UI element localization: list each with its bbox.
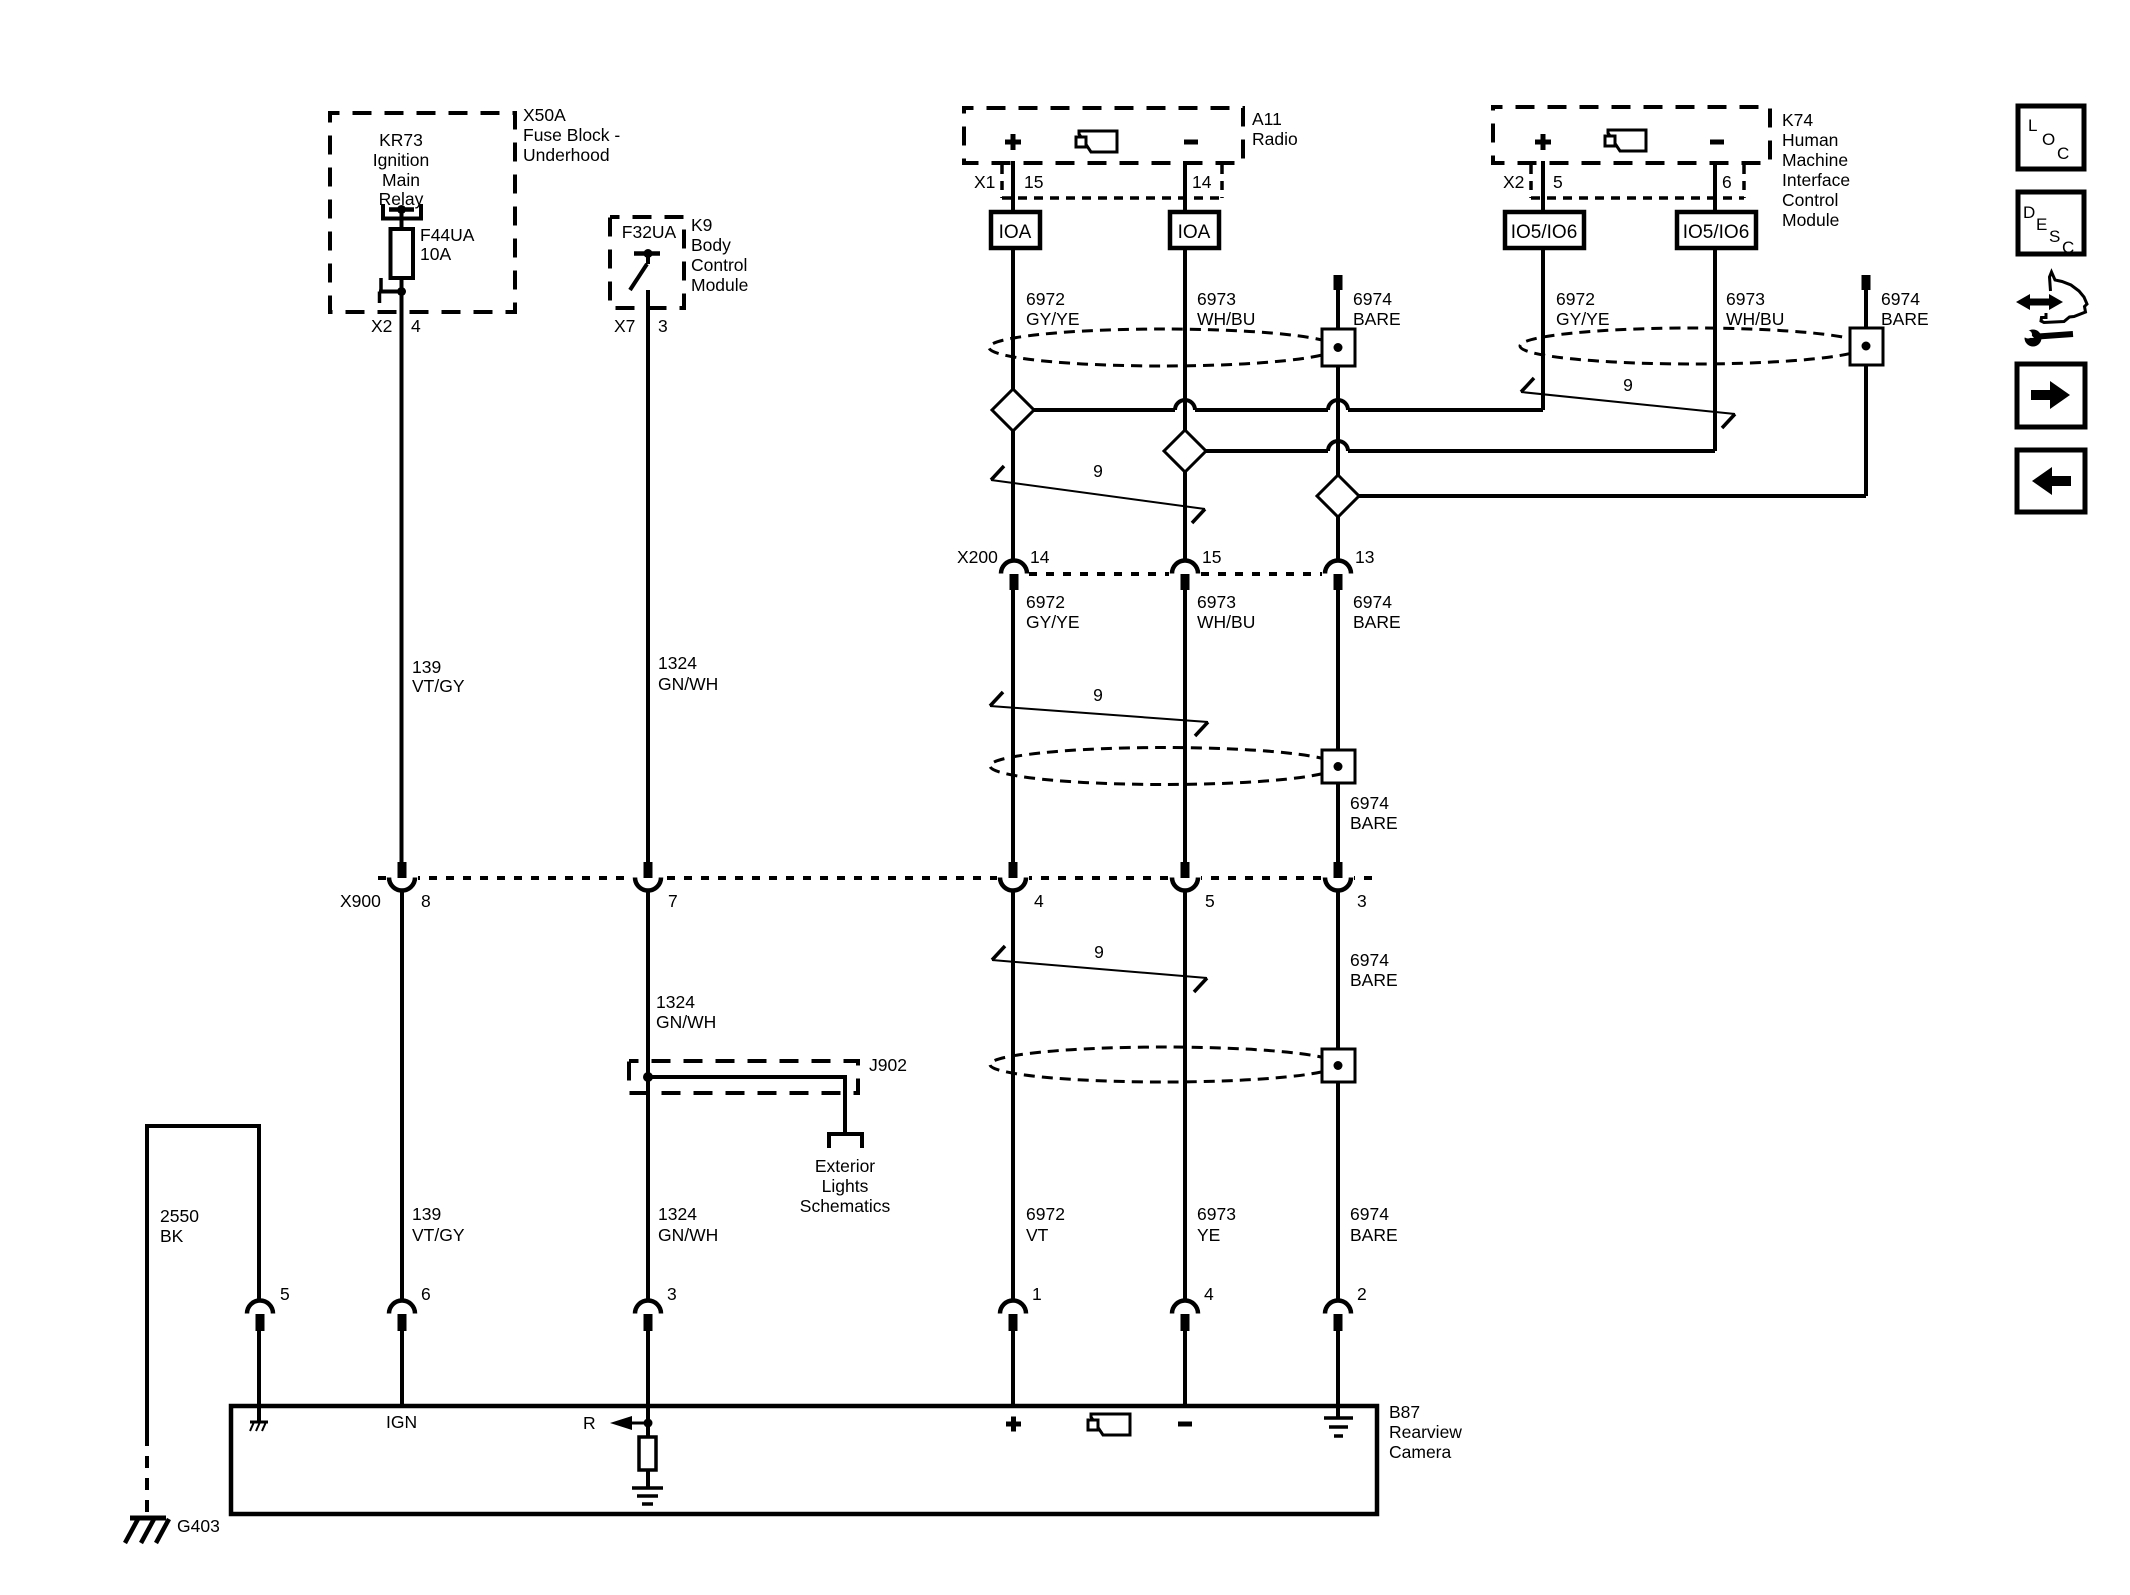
connector X900 pin 5 (pin + female cup): [1172, 862, 1198, 891]
wire 1324 GN/WH (X900 to B87): [646, 890, 650, 1301]
IOA box (left): [991, 212, 1040, 248]
label 6973 WH/BU (A11 drop): [1197, 289, 1255, 329]
svg-text:K74: K74: [1782, 110, 1813, 130]
wire 2550 BK dashed segment: [145, 1434, 149, 1517]
camera icon (B87): [1088, 1414, 1130, 1435]
svg-text:6973: 6973: [1197, 289, 1236, 309]
shield termination box (A11): [1322, 329, 1355, 366]
internal resistor (B87): [639, 1423, 656, 1488]
label K9 Body Control Module: [691, 215, 748, 295]
DESC button: [2018, 192, 2084, 257]
label X7 3 (BCM connector): [614, 316, 668, 336]
svg-text:X50A: X50A: [523, 105, 566, 125]
wire 6974 BARE (K74 drop): [1864, 290, 1868, 496]
label 6974 BARE (below X200): [1353, 592, 1401, 632]
connector X900 pin 3 (pin + female cup): [1325, 862, 1351, 891]
svg-text:4: 4: [1034, 891, 1044, 911]
wire 6973 WH/BU (X200 to X900): [1183, 590, 1187, 862]
wire 2550 BK loop: [147, 1126, 259, 1434]
svg-text:Body: Body: [691, 235, 731, 255]
plus terminal (B87): [1006, 1417, 1021, 1432]
svg-text:BARE: BARE: [1881, 309, 1929, 329]
svg-text:WH/BU: WH/BU: [1197, 309, 1255, 329]
shield termination box (K74): [1850, 328, 1883, 365]
wire A11 pin14 to IOA: [1183, 161, 1187, 212]
svg-text:Lights: Lights: [822, 1176, 869, 1196]
svg-text:F32UA: F32UA: [622, 222, 677, 242]
svg-text:Fuse Block -: Fuse Block -: [523, 125, 620, 145]
crossover link wire 6972 (splice to K74) with hops: [1013, 400, 1543, 410]
svg-text:IO5/IO6: IO5/IO6: [1511, 222, 1578, 243]
fuse block X50A dashed box: [330, 113, 515, 312]
wire pin3 to B87: [646, 1331, 650, 1423]
svg-text:8: 8: [421, 891, 431, 911]
ground G403: [125, 1518, 169, 1543]
label 6974 BARE (below X900): [1350, 950, 1398, 990]
svg-text:6973: 6973: [1197, 1204, 1236, 1224]
svg-text:A11: A11: [1252, 109, 1282, 129]
IO5/IO6 box (left): [1505, 212, 1584, 248]
svg-text:F44UA: F44UA: [420, 225, 475, 245]
twisted pair marker 9 (below X900): [992, 942, 1207, 992]
svg-text:Human: Human: [1782, 130, 1838, 150]
svg-text:GN/WH: GN/WH: [658, 1225, 718, 1245]
svg-text:1: 1: [1032, 1284, 1042, 1304]
wire pin2 to B87: [1336, 1331, 1340, 1418]
label F44UA 10A: [420, 225, 475, 264]
wire 6974 BARE (X200 to X900): [1336, 590, 1340, 862]
svg-text:O: O: [2042, 130, 2055, 149]
label 1324 GN/WH (upper): [658, 653, 718, 694]
label 6972 VT: [1026, 1204, 1065, 1245]
label KR73 Ignition Main Relay: [373, 130, 429, 209]
label X2 4 (fuse block connector): [371, 316, 421, 336]
inline connector pin 6 (arc + pin): [389, 1301, 415, 1331]
wire 6973 WH/BU (K74 drop): [1713, 248, 1717, 451]
connector X900 pin 8 (pin + female cup): [389, 862, 415, 891]
svg-text:Control: Control: [691, 255, 747, 275]
wire pin4 to B87: [1183, 1331, 1187, 1404]
svg-text:C: C: [2062, 238, 2074, 257]
twisted pair marker 9 (below X200): [990, 685, 1208, 736]
svg-text:IOA: IOA: [999, 222, 1032, 243]
wire 6974 BARE (A11 drop): [1336, 290, 1340, 561]
svg-text:VT/GY: VT/GY: [412, 1225, 465, 1245]
svg-text:6974: 6974: [1353, 592, 1392, 612]
twisted pair marker 9 (K74 pair): [1521, 375, 1735, 428]
wire 6972 (X900 to B87): [1011, 890, 1015, 1301]
svg-text:Rearview: Rearview: [1389, 1422, 1462, 1442]
twisted pair marker 9 (above X200): [991, 461, 1205, 523]
inline connector pin 4 (arc + pin): [1172, 1301, 1198, 1331]
shield ellipse (mid pair): [990, 748, 1338, 785]
svg-text:X2: X2: [1503, 172, 1524, 192]
svg-text:E: E: [2036, 215, 2047, 234]
next page button (right arrow): [2017, 364, 2085, 427]
splice diamond (6973): [1164, 430, 1206, 472]
svg-text:YE: YE: [1197, 1225, 1220, 1245]
splice diamond (6972): [992, 389, 1034, 431]
svg-text:IO5/IO6: IO5/IO6: [1683, 222, 1750, 243]
label 6974 BARE (K74 drop): [1881, 289, 1929, 329]
svg-text:Radio: Radio: [1252, 129, 1298, 149]
svg-text:K9: K9: [691, 215, 712, 235]
svg-text:BK: BK: [160, 1226, 184, 1246]
connector X200 pin 15 (female arc + pin): [1172, 561, 1198, 591]
shield ellipse (K74 pair): [1520, 328, 1866, 364]
svg-text:6972: 6972: [1026, 289, 1065, 309]
svg-text:13: 13: [1355, 547, 1374, 567]
svg-text:X200: X200: [957, 547, 998, 567]
svg-text:KR73: KR73: [379, 130, 423, 150]
svg-text:VT/GY: VT/GY: [412, 676, 465, 696]
minus terminal (B87): [1178, 1422, 1192, 1427]
IO5/IO6 box (right): [1677, 212, 1756, 248]
label 139 VT/GY (lower): [412, 1204, 465, 1245]
wire relay to fuse: [400, 210, 404, 230]
svg-text:C: C: [2057, 144, 2069, 163]
crossover link wire 6974 (splice to K74): [1338, 494, 1866, 498]
label R with reverse-signal arrow: [583, 1413, 653, 1433]
BCM K9 dashed box: [610, 217, 684, 308]
svg-text:Module: Module: [1782, 210, 1839, 230]
svg-text:3: 3: [658, 316, 668, 336]
svg-text:6973: 6973: [1197, 592, 1236, 612]
diagnostic icon (double arrow, component outline, wrench): [2016, 272, 2087, 347]
internal ground (B87 R circuit): [632, 1488, 663, 1504]
svg-text:10A: 10A: [420, 244, 451, 264]
svg-text:WH/BU: WH/BU: [1726, 309, 1784, 329]
connector X200 pin 13 (female arc + pin): [1325, 561, 1351, 591]
radio A11 dashed box: [964, 108, 1243, 163]
svg-text:D: D: [2023, 203, 2035, 222]
shield ellipse (A11 pair): [989, 329, 1337, 366]
svg-text:BARE: BARE: [1350, 1225, 1398, 1245]
svg-text:X2: X2: [371, 316, 392, 336]
svg-text:R: R: [583, 1413, 596, 1433]
wire pin1 to B87: [1011, 1331, 1015, 1404]
label 139 VT/GY (upper): [412, 657, 465, 696]
plus terminal (A11): [1005, 134, 1021, 150]
svg-text:4: 4: [411, 316, 421, 336]
svg-text:1324: 1324: [658, 653, 697, 673]
label 2550 BK: [160, 1206, 199, 1246]
svg-text:6974: 6974: [1350, 1204, 1389, 1224]
svg-text:IGN: IGN: [386, 1412, 417, 1432]
svg-text:X900: X900: [340, 891, 381, 911]
svg-text:139: 139: [412, 1204, 441, 1224]
svg-text:GN/WH: GN/WH: [656, 1012, 716, 1032]
svg-text:6: 6: [1722, 172, 1732, 192]
svg-text:WH/BU: WH/BU: [1197, 612, 1255, 632]
splice junction dot J902: [643, 1072, 653, 1082]
label 6973 YE: [1197, 1204, 1236, 1245]
mask under X900 connectors: [386, 870, 1354, 896]
svg-text:3: 3: [667, 1284, 677, 1304]
switch F32UA (BCM driver output): [630, 249, 660, 290]
svg-text:Underhood: Underhood: [523, 145, 610, 165]
svg-text:X1: X1: [974, 172, 995, 192]
svg-text:6: 6: [421, 1284, 431, 1304]
svg-text:Main: Main: [382, 170, 420, 190]
relay output clip terminal: [379, 278, 406, 303]
svg-text:VT: VT: [1026, 1225, 1049, 1245]
label 6972 GY/YE (below X200): [1026, 592, 1080, 632]
shield termination box (mid): [1322, 750, 1355, 783]
internal chassis ground (B87 pin5): [250, 1422, 268, 1431]
fuse F44UA: [391, 229, 414, 278]
connector X2 dashed outline (K74): [1531, 165, 1744, 198]
svg-text:GY/YE: GY/YE: [1026, 309, 1080, 329]
svg-text:IOA: IOA: [1178, 222, 1211, 243]
svg-text:BARE: BARE: [1353, 612, 1401, 632]
wire pin5 to B87: [257, 1331, 261, 1422]
label 6974 BARE (lower): [1350, 1204, 1398, 1245]
svg-text:Exterior: Exterior: [815, 1156, 875, 1176]
svg-text:1324: 1324: [658, 1204, 697, 1224]
inline connector pin 1 (arc + pin): [1000, 1301, 1026, 1331]
label Exterior Lights Schematics: [800, 1156, 891, 1216]
wire 139 VT/GY (X900 to B87): [400, 890, 404, 1301]
svg-text:3: 3: [1357, 891, 1367, 911]
label 1324 GN/WH (above J902): [656, 992, 716, 1032]
svg-text:GY/YE: GY/YE: [1556, 309, 1610, 329]
svg-text:9: 9: [1094, 942, 1104, 962]
label 6974 BARE (A11 drop): [1353, 289, 1401, 329]
connector X200 dashed line: [1029, 572, 1322, 576]
label 6972 GY/YE (A11 drop): [1026, 289, 1080, 329]
svg-text:Module: Module: [691, 275, 748, 295]
label 1324 GN/WH (lower): [658, 1204, 718, 1245]
wire 139 VT/GY upper segment: [400, 292, 404, 863]
svg-text:Ignition: Ignition: [373, 150, 429, 170]
minus terminal (K74): [1710, 140, 1724, 145]
wire K74 pin6 to IO5/IO6: [1713, 161, 1717, 212]
svg-text:Camera: Camera: [1389, 1442, 1452, 1462]
inline connector pin 2 (arc + pin): [1325, 1301, 1351, 1331]
inline connector pin 5 (arc + pin): [247, 1301, 273, 1331]
svg-text:2550: 2550: [160, 1206, 199, 1226]
svg-text:6972: 6972: [1026, 1204, 1065, 1224]
wire fuse to relay terminal: [400, 278, 404, 292]
wire 6972 GY/YE (K74 drop): [1541, 248, 1545, 410]
previous page button (left arrow): [2017, 450, 2085, 512]
svg-text:Interface: Interface: [1782, 170, 1850, 190]
HMI module K74 dashed box: [1493, 107, 1770, 163]
camera icon (K74): [1605, 130, 1646, 151]
camera icon (A11): [1076, 131, 1117, 152]
relay KR73 contact (bracket, blade, junction): [383, 204, 421, 219]
svg-text:9: 9: [1093, 461, 1103, 481]
label B87 Rearview Camera: [1389, 1402, 1462, 1462]
svg-text:4: 4: [1204, 1284, 1214, 1304]
off-page bracket (exterior lights): [829, 1134, 862, 1148]
wire 6973 (X900 to B87): [1183, 890, 1187, 1301]
svg-text:S: S: [2049, 227, 2060, 246]
LOC button: [2018, 106, 2084, 169]
svg-text:6974: 6974: [1353, 289, 1392, 309]
wire 6972 GY/YE (A11 IOA to splice): [1011, 248, 1015, 561]
svg-text:GN/WH: GN/WH: [658, 674, 718, 694]
svg-text:2: 2: [1357, 1284, 1367, 1304]
svg-text:9: 9: [1623, 375, 1633, 395]
IOA box (right): [1170, 212, 1219, 248]
svg-text:7: 7: [668, 891, 678, 911]
svg-text:5: 5: [280, 1284, 290, 1304]
svg-text:6973: 6973: [1726, 289, 1765, 309]
svg-text:BARE: BARE: [1350, 970, 1398, 990]
connector X900 dashed line: [378, 876, 1378, 880]
connector X900 pin 7 (pin + female cup): [635, 862, 661, 891]
connector X1 dashed outline: [1002, 165, 1222, 198]
rearview camera B87 box: [231, 1406, 1377, 1514]
svg-text:Control: Control: [1782, 190, 1838, 210]
svg-text:139: 139: [412, 657, 441, 677]
label K74 Human Machine Interface Control Module: [1782, 110, 1850, 230]
svg-text:15: 15: [1202, 547, 1221, 567]
wire 1324 GN/WH upper segment: [646, 290, 650, 862]
wire 6974 (X900 to B87): [1336, 890, 1340, 1301]
internal signal ground (B87 shield): [1324, 1418, 1353, 1436]
wire J902 tap to exterior lights: [648, 1077, 845, 1133]
splice J902 dashed box: [629, 1061, 858, 1093]
svg-text:6972: 6972: [1556, 289, 1595, 309]
shield termination box (lower): [1322, 1049, 1355, 1082]
svg-text:5: 5: [1205, 891, 1215, 911]
wire A11 pin15 to IOA: [1011, 161, 1015, 212]
svg-text:6974: 6974: [1881, 289, 1920, 309]
svg-text:Schematics: Schematics: [800, 1196, 891, 1216]
shield ellipse (lower pair): [990, 1047, 1338, 1082]
label 6973 WH/BU (K74 drop): [1726, 289, 1784, 329]
svg-text:6974: 6974: [1350, 950, 1389, 970]
label 6972 GY/YE (K74 drop): [1556, 289, 1610, 329]
svg-text:X7: X7: [614, 316, 635, 336]
wire 6973 WH/BU (A11 IOA to splice): [1183, 248, 1187, 561]
wire 6972 GY/YE (X200 to X900): [1011, 590, 1015, 862]
svg-text:GY/YE: GY/YE: [1026, 612, 1080, 632]
svg-text:14: 14: [1030, 547, 1050, 567]
svg-text:6972: 6972: [1026, 592, 1065, 612]
connector X200 pin 14 (female arc + pin): [1001, 561, 1027, 591]
svg-text:9: 9: [1093, 685, 1103, 705]
wire K74 pin5 to IO5/IO6: [1541, 161, 1545, 212]
svg-text:B87: B87: [1389, 1402, 1420, 1422]
shield drain stub (K74 6974): [1862, 275, 1871, 290]
svg-text:G403: G403: [177, 1516, 220, 1536]
shield drain stub (A11 6974): [1334, 275, 1343, 290]
crossover link wire 6973 (splice to K74) with hop: [1185, 441, 1715, 451]
svg-text:1324: 1324: [656, 992, 695, 1012]
label X50A Fuse Block - Underhood: [523, 105, 620, 165]
label A11 Radio: [1252, 109, 1298, 149]
svg-text:6974: 6974: [1350, 793, 1389, 813]
splice diamond (6974): [1317, 475, 1359, 517]
svg-text:BARE: BARE: [1350, 813, 1398, 833]
inline connector pin 3 (arc + pin): [635, 1301, 661, 1331]
wire pin6 to B87: [400, 1331, 404, 1404]
plus terminal (K74): [1535, 134, 1551, 150]
svg-text:5: 5: [1553, 172, 1563, 192]
svg-text:J902: J902: [869, 1055, 907, 1075]
svg-text:BARE: BARE: [1353, 309, 1401, 329]
label 6974 BARE (mid): [1350, 793, 1398, 833]
svg-text:Machine: Machine: [1782, 150, 1848, 170]
svg-text:L: L: [2028, 116, 2037, 135]
minus terminal (A11): [1184, 140, 1198, 145]
svg-text:14: 14: [1192, 172, 1212, 192]
label 6973 WH/BU (below X200): [1197, 592, 1255, 632]
svg-text:15: 15: [1024, 172, 1043, 192]
connector X900 pin 4 (pin + female cup): [1000, 862, 1026, 891]
